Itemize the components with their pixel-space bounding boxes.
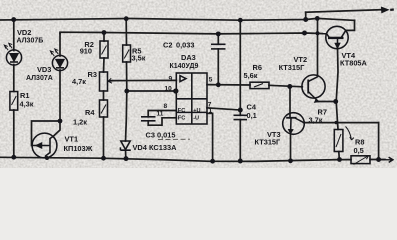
svg-text:910: 910	[80, 47, 92, 56]
wire node to VD4	[126, 91, 127, 141]
wire C2 top lead	[217, 34, 219, 44]
wire R2-R3	[103, 58, 106, 72]
scan artifact line	[158, 138, 190, 140]
wire C4 top lead	[239, 110, 241, 115]
LED VD2	[6, 50, 21, 65]
junction bottom rail / R1	[11, 155, 16, 160]
svg-text:0,1: 0,1	[247, 111, 257, 120]
svg-text:АЛ307А: АЛ307А	[26, 75, 53, 82]
svg-text:8: 8	[164, 103, 168, 110]
junction bottom rail / VT1 source	[45, 156, 49, 160]
transistor VT3	[283, 113, 305, 135]
wire VD3 cathode to node	[59, 70, 61, 121]
wire bottom rail after R8	[370, 159, 385, 161]
inversion dot pin10	[174, 89, 178, 93]
svg-text:К140УД9: К140УД9	[170, 63, 199, 70]
wire VT1 drain	[53, 121, 60, 137]
wire R3 wiper to pin 9	[108, 79, 176, 82]
junction R6 / VT2 base / VT3 base	[287, 84, 292, 89]
junction pin7 / C4	[238, 108, 243, 113]
wire pin 5 output	[207, 84, 250, 86]
zener diode VD4	[121, 141, 130, 150]
op-amp DA3 box	[176, 73, 207, 124]
IC cell labels	[178, 108, 201, 121]
wire VD3 anode	[59, 34, 61, 57]
capacitor C3	[141, 116, 156, 118]
svg-text:9: 9	[169, 76, 173, 83]
wire output riser top	[305, 12, 307, 19]
wire R5 bottom	[126, 62, 128, 91]
transistor VT1 (JFET)	[32, 133, 57, 158]
wire node to R7	[336, 102, 338, 130]
wire R6 right to VT2 base	[269, 85, 302, 87]
wire VT4 collector hook	[346, 20, 355, 30]
resistor R7	[334, 130, 343, 152]
junction bottom rail / R7	[337, 157, 342, 162]
junction top rail / VT2 collector	[315, 16, 320, 21]
R8 adjuster curve	[346, 127, 354, 141]
wire VT3 collector line	[304, 122, 379, 124]
resistor R4	[100, 100, 108, 117]
svg-text:0,5: 0,5	[354, 146, 364, 155]
svg-text:1,2к: 1,2к	[73, 118, 87, 127]
wire VT3 emitter to rail	[290, 131, 292, 161]
LED VD3	[52, 55, 67, 70]
wire R5 top	[125, 19, 127, 45]
svg-text:4,7к: 4,7к	[72, 77, 86, 86]
svg-text:DA3: DA3	[181, 53, 196, 62]
wire R4 to bottom rail	[103, 117, 105, 158]
svg-text:VT1: VT1	[65, 135, 79, 144]
resistor R2	[100, 41, 108, 58]
resistor R3 (trimmer)	[100, 72, 108, 91]
resistor R6	[250, 82, 269, 88]
wire VT2 collector	[317, 18, 319, 76]
wire rail to pin7 node	[239, 20, 241, 110]
node A VD3 cathode / VT1 drain	[58, 119, 63, 124]
wire C4 bottom lead	[239, 120, 241, 161]
wire R3-R4	[103, 91, 105, 100]
svg-text:FC: FC	[178, 108, 185, 114]
wire VD4 to bottom rail	[125, 150, 127, 158]
wire VT4 emitter down	[336, 48, 338, 101]
wire VT2 base node down to VT3	[289, 87, 291, 118]
svg-text:10: 10	[165, 86, 173, 93]
wire bias line y33	[60, 32, 322, 34]
svg-text:КТ315Г: КТ315Г	[255, 137, 282, 146]
svg-text:FC: FC	[178, 115, 185, 121]
junction top rail / C4 branch	[238, 18, 243, 23]
junction bottom rail / pin1	[210, 159, 215, 164]
svg-text:АЛ307Б: АЛ307Б	[17, 37, 44, 44]
transistor VT2	[302, 75, 325, 98]
junction bottom rail / VT3 emitter	[288, 158, 293, 163]
wire VT1 gate loop	[32, 121, 61, 146]
node B R5 / pin10 / VD4	[124, 89, 129, 94]
wire VD2 anode	[13, 20, 15, 51]
svg-text:VD4: VD4	[133, 143, 148, 152]
svg-text:С3 0,015: С3 0,015	[146, 131, 176, 140]
pin numbers	[157, 76, 213, 118]
resistor R5	[123, 45, 131, 62]
junction top rail / VD2	[11, 17, 16, 22]
svg-text:R3: R3	[88, 70, 97, 79]
junction bottom rail / C4	[238, 159, 243, 164]
wire pin 7	[207, 108, 240, 110]
junction bias line / riser	[302, 31, 307, 36]
svg-text:КТ315Г: КТ315Г	[279, 63, 306, 72]
resistor R8 (in rail, variable)	[351, 156, 370, 164]
wire VT2 emitter to node	[318, 101, 335, 103]
capacitor C2	[211, 43, 226, 45]
resistor R1	[10, 92, 18, 111]
svg-text:R4: R4	[85, 108, 95, 117]
junction bias line / C2	[216, 31, 221, 36]
junction bottom rail / output	[376, 157, 381, 162]
wire pin 1 to bottom rail	[207, 113, 213, 161]
wire VD2 cathode to R1	[13, 65, 15, 92]
svg-text:3,7к: 3,7к	[309, 116, 323, 125]
wire C3 to pin 11	[148, 118, 176, 125]
wire bottom rail	[0, 157, 351, 161]
svg-text:КС133А: КС133А	[149, 143, 177, 152]
arrow top output	[381, 7, 394, 12]
wire VT1 source to rail	[45, 158, 47, 160]
arrow bottom output	[381, 157, 393, 162]
junction bottom rail / R4	[101, 156, 106, 161]
junction top rail / R5	[124, 16, 129, 21]
svg-text:4,3к: 4,3к	[20, 100, 34, 109]
wire R1 to bottom rail	[13, 110, 15, 157]
transistor VT4	[326, 26, 348, 48]
svg-text:VD2: VD2	[17, 28, 31, 37]
wire R2 top	[103, 33, 105, 42]
wire top rail	[0, 18, 355, 20]
svg-text:VD3: VD3	[37, 65, 51, 74]
svg-text:5: 5	[209, 77, 213, 84]
junction bottom rail / VD4	[124, 156, 129, 161]
junction bias line / VT2 collector cross	[316, 31, 320, 35]
wire top output line to arrow	[306, 10, 384, 13]
svg-text:11: 11	[157, 111, 164, 118]
svg-text:КП103Ж: КП103Ж	[64, 144, 93, 153]
svg-text:-U: -U	[193, 115, 199, 121]
svg-text:3,5к: 3,5к	[132, 54, 146, 63]
wire R7 to bottom rail	[338, 152, 341, 160]
svg-text:КТ805А: КТ805А	[340, 59, 368, 68]
junction bias line / R2	[102, 30, 107, 35]
junction top rail / output riser	[303, 17, 308, 22]
svg-text:С2 0,033: С2 0,033	[163, 41, 195, 50]
junction VT3 collector line cross	[335, 121, 338, 124]
wire pin 8 to C3	[148, 111, 176, 117]
svg-text:+U: +U	[193, 108, 200, 114]
wire C2 bottom lead	[217, 49, 219, 85]
svg-text:5,6к: 5,6к	[244, 71, 258, 80]
junction VT2 emitter / VT4 emitter / R7	[333, 99, 338, 104]
wire to output node after R8	[378, 123, 380, 160]
svg-text:1: 1	[209, 108, 213, 115]
wire node to pin 10	[127, 90, 177, 92]
capacitor C4	[234, 114, 248, 116]
junction op-amp output / C2	[216, 82, 221, 87]
